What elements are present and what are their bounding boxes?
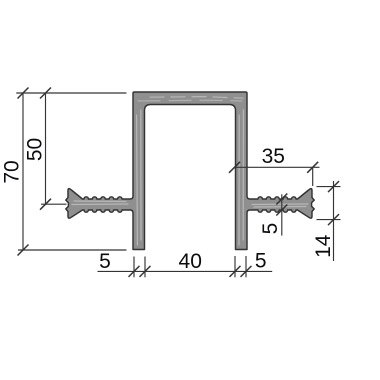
tick at bottom of arm-thickness dimension <box>276 205 287 216</box>
value label 40 (inner width) <box>179 250 202 273</box>
svg-text:70: 70 <box>1 160 24 183</box>
tick at bottom of 70 dimension <box>18 245 29 256</box>
dimension line 14 (flange tip height) <box>333 181 335 261</box>
dimension line 70 (overall height) <box>22 93 24 250</box>
value label 50 (rotated) <box>24 138 47 161</box>
tick at left leg inner edge <box>140 266 151 277</box>
tick at left end of 35 dimension <box>229 162 240 173</box>
svg-text:5: 5 <box>255 250 267 273</box>
tick at right leg outer edge <box>241 266 252 277</box>
dimension line 50 (top to flange axis) <box>45 93 47 204</box>
tick at top of 50 dimension <box>40 88 51 99</box>
tick at top of arm-thickness dimension <box>276 194 287 205</box>
svg-text:40: 40 <box>179 250 202 273</box>
extension line left leg inner edge <box>144 257 146 278</box>
value label 5 (right leg thickness) <box>255 250 267 273</box>
lower extension line for 14 dimension <box>317 219 341 221</box>
bottom dimension line (5 / 40 / 5) <box>98 270 273 272</box>
svg-text:5: 5 <box>259 223 282 235</box>
svg-text:5: 5 <box>99 250 111 273</box>
extension line left leg outer edge <box>133 257 135 278</box>
upper extension line for 14 dimension <box>317 186 341 188</box>
tick at right end of 35 dimension <box>307 162 318 173</box>
value label 5 (left leg thickness) <box>99 250 111 273</box>
value label 14 (flange tip height, rotated) <box>312 234 335 258</box>
value label 35 <box>262 145 285 168</box>
tick at top of 70 dimension <box>18 88 29 99</box>
tick at bottom of 50 dimension <box>40 199 51 210</box>
value label 5 (flange arm thickness, rotated) <box>259 223 282 235</box>
bottom extension line (legs bottom level) <box>18 249 127 251</box>
tick at right leg inner edge <box>230 266 241 277</box>
top extension line (profile top level) <box>16 92 126 94</box>
svg-text:35: 35 <box>262 145 285 168</box>
tick at left leg outer edge <box>129 266 140 277</box>
waterstop profile cross-section (top-hat body with two barbed anchor flanges) <box>66 92 314 250</box>
extension line right leg outer edge <box>245 256 247 277</box>
extension line from right flange tip up to 35 dimension <box>312 167 314 186</box>
svg-text:50: 50 <box>24 138 47 161</box>
tick at top of 14 dimension <box>328 181 339 192</box>
pointer line from 50 dimension to left flange tip <box>41 203 67 205</box>
tick at bottom of 14 dimension <box>328 214 339 225</box>
svg-text:14: 14 <box>312 234 335 258</box>
dimension line 35 (flange length) <box>235 166 320 168</box>
extension line right leg inner edge <box>234 256 236 277</box>
extrusion texture streaks inside profile <box>72 97 308 245</box>
value label 70 (rotated) <box>1 160 24 183</box>
dimension line 5 (flange arm thickness) <box>281 194 283 235</box>
